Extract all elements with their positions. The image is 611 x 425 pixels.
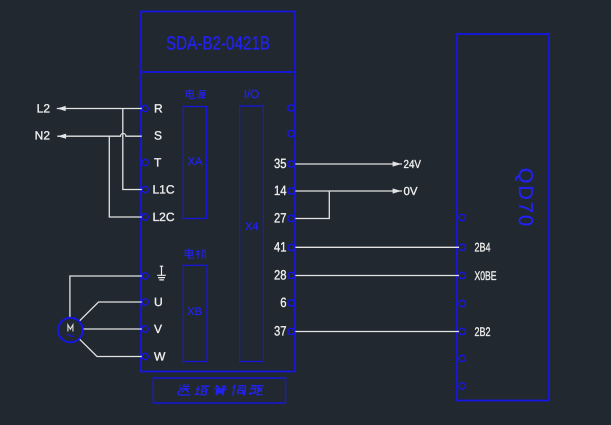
connector X4 label bbox=[245, 221, 258, 233]
motor tilde bbox=[67, 335, 74, 337]
terminal V label bbox=[154, 322, 162, 336]
svg-text:35: 35 bbox=[274, 156, 287, 171]
terminal 27 label bbox=[274, 211, 287, 226]
QD70 terminal circle X0BE bbox=[459, 272, 465, 278]
wire 28 to X0BE bbox=[295, 275, 459, 277]
QD70 terminal circle row1 bbox=[459, 214, 465, 220]
svg-text:L1C: L1C bbox=[153, 183, 175, 197]
servo drive model label SDA-B2-0421B bbox=[166, 33, 270, 54]
connector XA label bbox=[188, 156, 203, 168]
connector XA rect bbox=[183, 107, 206, 219]
N2 arrowhead bbox=[57, 134, 66, 139]
wire 14 to 0V arrow bbox=[295, 190, 402, 192]
node 2B4 label bbox=[475, 241, 491, 255]
wire R to L2 arrow bbox=[57, 108, 142, 110]
QD70 module label bbox=[514, 168, 536, 228]
terminal S label bbox=[154, 129, 162, 143]
servo drive block U1 outline bbox=[141, 12, 295, 372]
QD70 module outline bbox=[457, 34, 549, 401]
QD70 terminal circle 2B4 bbox=[459, 244, 465, 250]
terminal T circle bbox=[142, 159, 148, 165]
terminal 37 label bbox=[274, 324, 287, 339]
terminal W label bbox=[154, 350, 166, 364]
terminal 41 label bbox=[274, 240, 287, 255]
svg-text:41: 41 bbox=[274, 240, 287, 255]
wire branch S to L2C bbox=[109, 136, 142, 217]
wire V to motor bbox=[83, 328, 142, 330]
L2 arrowhead bbox=[57, 106, 66, 111]
wire U to motor bbox=[79, 302, 142, 321]
terminal 14 label bbox=[274, 183, 287, 198]
motor label (dianji) bbox=[185, 249, 206, 259]
node 24V label bbox=[404, 159, 422, 171]
wire 41 to 2B4 bbox=[295, 246, 459, 248]
svg-text:SDA-B2-0421B: SDA-B2-0421B bbox=[166, 33, 270, 54]
terminal 6 label bbox=[280, 295, 286, 310]
terminal 35 label bbox=[274, 156, 287, 171]
terminal V circle bbox=[142, 326, 148, 332]
wire branch R to L1C bbox=[123, 109, 142, 190]
svg-text:X4: X4 bbox=[245, 221, 258, 233]
terminal R label bbox=[154, 102, 163, 116]
node N2 label bbox=[35, 129, 51, 143]
svg-text:X0BE: X0BE bbox=[475, 269, 497, 283]
terminal L1C label bbox=[153, 183, 175, 197]
wire S to N2 arrow with hop bbox=[57, 134, 142, 137]
svg-text:XB: XB bbox=[187, 306, 202, 318]
QD70 terminal circle 2B2 bbox=[459, 328, 465, 334]
svg-text:24V: 24V bbox=[404, 159, 422, 171]
svg-text:T: T bbox=[154, 156, 162, 170]
power label (dianyuan) bbox=[186, 89, 206, 99]
terminal U label bbox=[154, 295, 163, 309]
svg-text:6: 6 bbox=[280, 295, 286, 310]
svg-text:0V: 0V bbox=[404, 186, 418, 198]
motor M1 circle bbox=[58, 318, 83, 343]
terminal 27 circle bbox=[288, 215, 294, 221]
QD70 terminal circle row7 bbox=[459, 383, 465, 389]
svg-text:L2C: L2C bbox=[153, 210, 175, 224]
QD70 terminal circle row6 bbox=[459, 355, 465, 361]
terminal 28 label bbox=[274, 268, 287, 283]
svg-text:37: 37 bbox=[274, 324, 287, 339]
svg-text:I/O: I/O bbox=[244, 89, 259, 101]
terminal 6 circle bbox=[288, 300, 294, 306]
terminal U circle bbox=[142, 299, 148, 305]
terminal 37 circle bbox=[288, 328, 294, 334]
terminal 14 circle bbox=[288, 188, 294, 194]
svg-text:U: U bbox=[154, 295, 163, 309]
connector XB label bbox=[187, 306, 202, 318]
svg-text:XA: XA bbox=[188, 156, 203, 168]
I/O label bbox=[244, 89, 259, 101]
servo drive title divider bbox=[141, 71, 295, 73]
svg-text:27: 27 bbox=[274, 211, 287, 226]
ground symbol bbox=[157, 266, 166, 280]
motor M label bbox=[68, 325, 73, 332]
connector X4 rect bbox=[240, 106, 264, 362]
drive caption box bbox=[153, 378, 285, 403]
24V arrowhead bbox=[393, 161, 402, 166]
terminal PE circle bbox=[142, 273, 148, 279]
right edge spare terminal circle 1 bbox=[288, 105, 294, 111]
node L2 label bbox=[37, 102, 51, 116]
svg-text:N2: N2 bbox=[35, 129, 51, 143]
wire branch 14 to 27 bbox=[295, 191, 329, 219]
terminal 28 circle bbox=[288, 272, 294, 278]
svg-text:S: S bbox=[154, 129, 162, 143]
terminal L2C label bbox=[153, 210, 175, 224]
node 0V label bbox=[404, 186, 418, 198]
svg-text:14: 14 bbox=[274, 183, 287, 198]
terminal W circle bbox=[142, 353, 148, 359]
terminal 41 circle bbox=[288, 244, 294, 250]
wire 35 to 24V arrow bbox=[295, 163, 402, 165]
drive caption text (song ta huang si qu) bbox=[177, 384, 264, 395]
terminal L2C circle bbox=[142, 214, 148, 220]
svg-text:28: 28 bbox=[274, 268, 287, 283]
wire PE to motor bbox=[70, 276, 142, 318]
svg-text:R: R bbox=[154, 102, 163, 116]
QD70 terminal circle row4 bbox=[459, 300, 465, 306]
svg-text:L2: L2 bbox=[37, 102, 51, 116]
node 2B2 label bbox=[475, 325, 491, 339]
node X0BE label bbox=[475, 269, 497, 283]
terminal T label bbox=[154, 156, 162, 170]
svg-text:2B4: 2B4 bbox=[475, 241, 491, 255]
0V arrowhead bbox=[393, 188, 402, 193]
svg-text:W: W bbox=[154, 350, 166, 364]
svg-text:V: V bbox=[154, 322, 162, 336]
terminal R circle bbox=[142, 105, 148, 111]
wire W to motor bbox=[79, 339, 142, 357]
wire 37 to 2B2 bbox=[295, 331, 459, 333]
right edge spare terminal circle 2 bbox=[288, 130, 294, 136]
terminal 35 circle bbox=[288, 161, 294, 167]
connector XB rect bbox=[183, 265, 207, 361]
terminal L1C circle bbox=[142, 186, 148, 192]
svg-text:2B2: 2B2 bbox=[475, 325, 491, 339]
svg-text:QD70: QD70 bbox=[514, 168, 536, 228]
